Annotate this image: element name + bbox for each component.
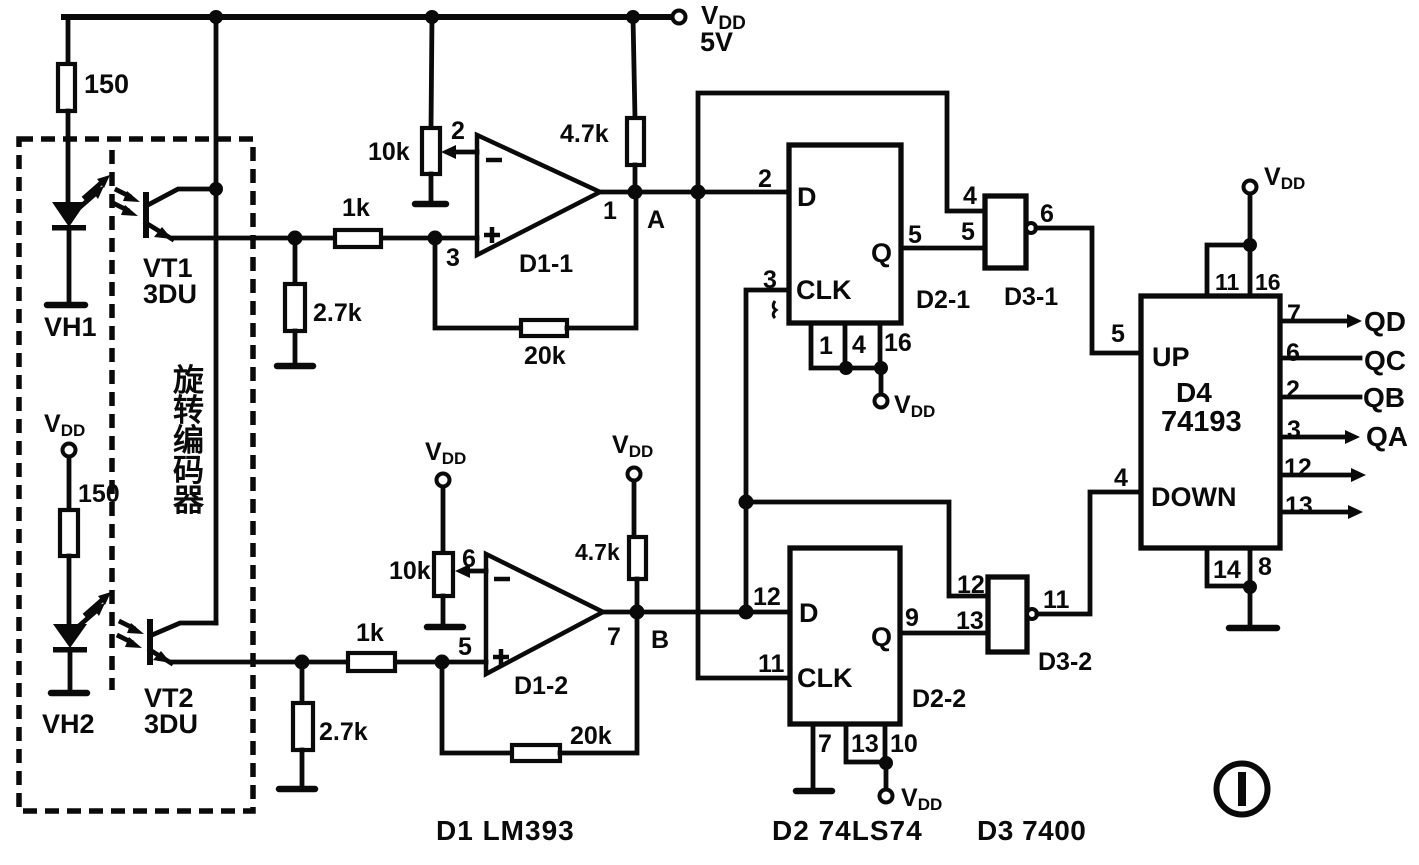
node A branch junction xyxy=(691,185,706,200)
node branch to D3-2 pin 12 xyxy=(739,495,754,510)
wire VT1 emitter to comparator + xyxy=(172,236,477,241)
svg-text:CLK: CLK xyxy=(797,663,853,693)
svg-text:1k: 1k xyxy=(342,194,370,222)
svg-text:5: 5 xyxy=(1111,320,1125,348)
resistor 4.7k (upper) xyxy=(560,17,644,192)
svg-text:5: 5 xyxy=(908,221,922,249)
D4 output pin 12 xyxy=(1280,454,1366,482)
svg-text:QD: QD xyxy=(1364,306,1406,337)
wire VT2 emitter to comparator + xyxy=(171,660,486,665)
LED VH2 xyxy=(53,624,87,691)
node comparator + junction (pin 3) xyxy=(428,231,443,246)
svg-text:4.7k: 4.7k xyxy=(560,120,609,148)
svg-text:7: 7 xyxy=(607,623,621,651)
svg-text:2: 2 xyxy=(451,117,465,145)
light arrows into VT2 xyxy=(119,622,144,648)
VDD terminal (D4) xyxy=(1244,163,1306,194)
phototransistor VT1 3DU xyxy=(143,189,216,309)
svg-text:3: 3 xyxy=(763,266,777,294)
svg-text:150: 150 xyxy=(84,69,129,99)
svg-text:10k: 10k xyxy=(368,138,410,166)
svg-text:2.7k: 2.7k xyxy=(313,299,362,327)
node 2.7k junction (lower) xyxy=(295,655,310,670)
ground (D4) xyxy=(1229,625,1277,632)
wire D1-2 output (node B) xyxy=(603,610,790,615)
wire A over-route to D3-1 pin 4 xyxy=(698,93,985,211)
D4 output QB (pin 2) xyxy=(1280,376,1405,413)
svg-text:7: 7 xyxy=(1287,300,1301,328)
wire to D3-2 pin 12 xyxy=(746,502,988,596)
wire D3-2 output to D4 DOWN (pin 4) xyxy=(1037,492,1141,614)
svg-text:150: 150 xyxy=(78,480,120,508)
ground (VH1) xyxy=(47,302,85,309)
resistor 4.7k (lower) xyxy=(575,537,646,612)
svg-text:D3 7400: D3 7400 xyxy=(977,815,1086,846)
wire B to D2-1 CLK xyxy=(746,290,789,612)
node 2.7k junction (upper) xyxy=(288,231,303,246)
wire A down-route to D2-2 CLK xyxy=(698,192,790,678)
NAND gate D3-1 xyxy=(985,196,1058,311)
VDD terminal (4.7k lower) xyxy=(612,431,653,537)
svg-text:CLK: CLK xyxy=(796,275,852,305)
LED VH1 xyxy=(52,202,86,303)
potentiometer 10k (lower) xyxy=(389,553,486,625)
svg-text:3DU: 3DU xyxy=(143,279,197,309)
light arrows from VH1 xyxy=(79,175,110,208)
node rail junction to VT collectors xyxy=(209,10,223,24)
potentiometer 10k (upper) xyxy=(368,17,477,202)
resistor 1k (upper) xyxy=(335,194,381,247)
D2-1 bottom pins 1,4,16 to VDD xyxy=(811,323,912,394)
resistor 1k (lower) xyxy=(348,619,395,671)
svg-text:3DU: 3DU xyxy=(144,709,198,739)
D4 output pin 13 xyxy=(1280,492,1363,520)
op-amp D1-2 xyxy=(486,554,621,700)
ground (D2-2 pin 7) xyxy=(796,788,832,795)
svg-text:11: 11 xyxy=(758,650,785,678)
svg-text:6: 6 xyxy=(1040,200,1054,228)
svg-text:13: 13 xyxy=(956,607,984,635)
D4 bottom pins 14,8 to ground xyxy=(1207,548,1272,625)
svg-text:D4: D4 xyxy=(1176,377,1212,408)
svg-text:16: 16 xyxy=(884,329,912,357)
wire VDD feed to phototransistor collectors xyxy=(214,17,219,623)
svg-text:D1-1: D1-1 xyxy=(519,250,573,278)
node rail-left corner xyxy=(66,17,71,64)
svg-text:1k: 1k xyxy=(356,619,384,647)
svg-text:12: 12 xyxy=(753,583,781,611)
svg-text:8: 8 xyxy=(1258,553,1272,581)
resistor 20k feedback (lower) xyxy=(442,612,637,761)
svg-text:74193: 74193 xyxy=(1161,406,1242,438)
svg-text:2.7k: 2.7k xyxy=(319,718,368,746)
wire top VDD rail xyxy=(64,14,674,20)
node rail junction to 4.7k xyxy=(626,10,640,24)
svg-text:D: D xyxy=(797,182,817,212)
svg-text:Q: Q xyxy=(871,622,892,652)
ground (VH2) xyxy=(51,690,87,697)
label rotary encoder (Chinese) xyxy=(172,363,205,518)
D2-2 bottom pins 13,10 to VDD xyxy=(846,724,918,789)
node rail junction to 10k xyxy=(425,10,439,24)
rotary encoder dashed box xyxy=(19,139,253,811)
svg-text:20k: 20k xyxy=(570,722,612,750)
svg-text:QB: QB xyxy=(1363,382,1405,413)
resistor 2.7k (lower) xyxy=(293,662,368,786)
VDD terminal (10k lower) xyxy=(425,438,466,553)
D4 output QA (pin 3) xyxy=(1280,416,1408,452)
light arrows from VH2 xyxy=(80,592,111,625)
svg-text:3: 3 xyxy=(1287,416,1301,444)
resistor 2.7k (upper) xyxy=(285,238,362,363)
wire D1-1 output (node A) xyxy=(600,190,789,195)
svg-text:A: A xyxy=(647,206,665,234)
svg-text:4.7k: 4.7k xyxy=(575,539,620,565)
svg-text:4: 4 xyxy=(1114,464,1128,492)
svg-text:1: 1 xyxy=(603,197,617,225)
ground (2.7k upper) xyxy=(277,363,313,370)
svg-text:6: 6 xyxy=(1286,339,1300,367)
wire D2-2 Q to D3-2 xyxy=(900,631,988,636)
svg-text:1: 1 xyxy=(819,332,833,360)
dashed divider inside encoder xyxy=(109,150,115,690)
svg-text:12: 12 xyxy=(957,571,985,599)
svg-text:UP: UP xyxy=(1152,342,1190,372)
svg-text:器: 器 xyxy=(172,483,205,518)
phototransistor VT2 3DU xyxy=(144,619,216,739)
wire D2-1 Q to D3-1 xyxy=(901,246,985,251)
svg-text:10: 10 xyxy=(890,730,918,758)
svg-text:5: 5 xyxy=(458,633,472,661)
D4 output QC (pin 6) xyxy=(1280,339,1406,376)
VDD terminal (VH2 branch) xyxy=(44,410,85,510)
svg-text:5V: 5V xyxy=(700,27,733,57)
svg-text:QC: QC xyxy=(1364,345,1406,376)
svg-text:7: 7 xyxy=(818,730,832,758)
VDD terminal (D2-1) xyxy=(875,391,936,421)
svg-text:3: 3 xyxy=(446,244,460,272)
svg-text:D1-2: D1-2 xyxy=(514,672,568,700)
resistor 150 (lower) xyxy=(60,480,120,624)
svg-text:13: 13 xyxy=(851,730,879,758)
svg-text:20k: 20k xyxy=(524,342,566,370)
svg-text:D2 74LS74: D2 74LS74 xyxy=(772,815,923,846)
node B branch junction (to D2-1 CLK) xyxy=(739,605,754,620)
VDD terminal (D2-2) xyxy=(880,784,943,814)
node comparator + junction (pin 5) xyxy=(435,655,450,670)
svg-text:14: 14 xyxy=(1213,556,1241,584)
ground (2.7k lower) xyxy=(279,786,315,793)
svg-text:5: 5 xyxy=(961,218,975,246)
svg-text:12: 12 xyxy=(1284,454,1312,482)
light arrows into VT1 xyxy=(115,190,140,216)
node 4.7k/feedback junction (B) xyxy=(630,605,645,620)
svg-text:QA: QA xyxy=(1366,421,1408,452)
svg-text:DOWN: DOWN xyxy=(1151,482,1236,512)
flip-flop D2-2 xyxy=(753,548,966,724)
svg-text:13: 13 xyxy=(1285,492,1313,520)
NAND gate D3-2 xyxy=(988,577,1092,676)
svg-text:11: 11 xyxy=(1215,269,1240,295)
svg-text:Q: Q xyxy=(871,238,892,268)
counter D4 74193 xyxy=(1141,296,1280,548)
D2-2 bottom pin 7 to ground xyxy=(813,724,832,789)
D4 top pins 11,16 to VDD xyxy=(1207,194,1281,296)
svg-text:10k: 10k xyxy=(389,557,431,585)
svg-text:4: 4 xyxy=(852,331,866,359)
node VT1 collector junction xyxy=(209,182,223,196)
svg-text:2: 2 xyxy=(1286,376,1300,404)
ground (10k upper) xyxy=(415,201,446,208)
ground (10k lower) xyxy=(427,624,463,631)
figure number circled 1 xyxy=(1217,764,1268,815)
svg-text:VH1: VH1 xyxy=(44,312,97,342)
resistor 20k feedback (upper) xyxy=(435,192,636,370)
svg-text:VH2: VH2 xyxy=(42,709,95,739)
wire D3-1 output to D4 UP (pin 5) xyxy=(1036,228,1141,353)
D4 output QD (pin 7) xyxy=(1280,300,1406,337)
svg-text:D3-1: D3-1 xyxy=(1004,283,1058,311)
svg-text:9: 9 xyxy=(905,604,919,632)
svg-text:16: 16 xyxy=(1255,269,1281,295)
svg-text:11: 11 xyxy=(1043,586,1070,614)
svg-text:D2-2: D2-2 xyxy=(912,685,966,713)
svg-text:D: D xyxy=(799,598,819,628)
svg-text:B: B xyxy=(651,626,669,654)
svg-text:D3-2: D3-2 xyxy=(1038,648,1092,676)
svg-text:D1 LM393: D1 LM393 xyxy=(436,815,575,846)
resistor 150 (upper) xyxy=(58,64,129,202)
flip-flop D2-1 xyxy=(758,145,970,323)
node 4.7k/feedback junction xyxy=(628,185,643,200)
svg-text:2: 2 xyxy=(758,165,772,193)
op-amp D1-1 xyxy=(477,135,617,278)
svg-text:D2-1: D2-1 xyxy=(916,286,970,314)
scan artifact mark xyxy=(773,301,776,318)
svg-text:6: 6 xyxy=(462,545,476,573)
VDD 5V terminal xyxy=(673,0,746,57)
svg-text:4: 4 xyxy=(963,182,977,210)
